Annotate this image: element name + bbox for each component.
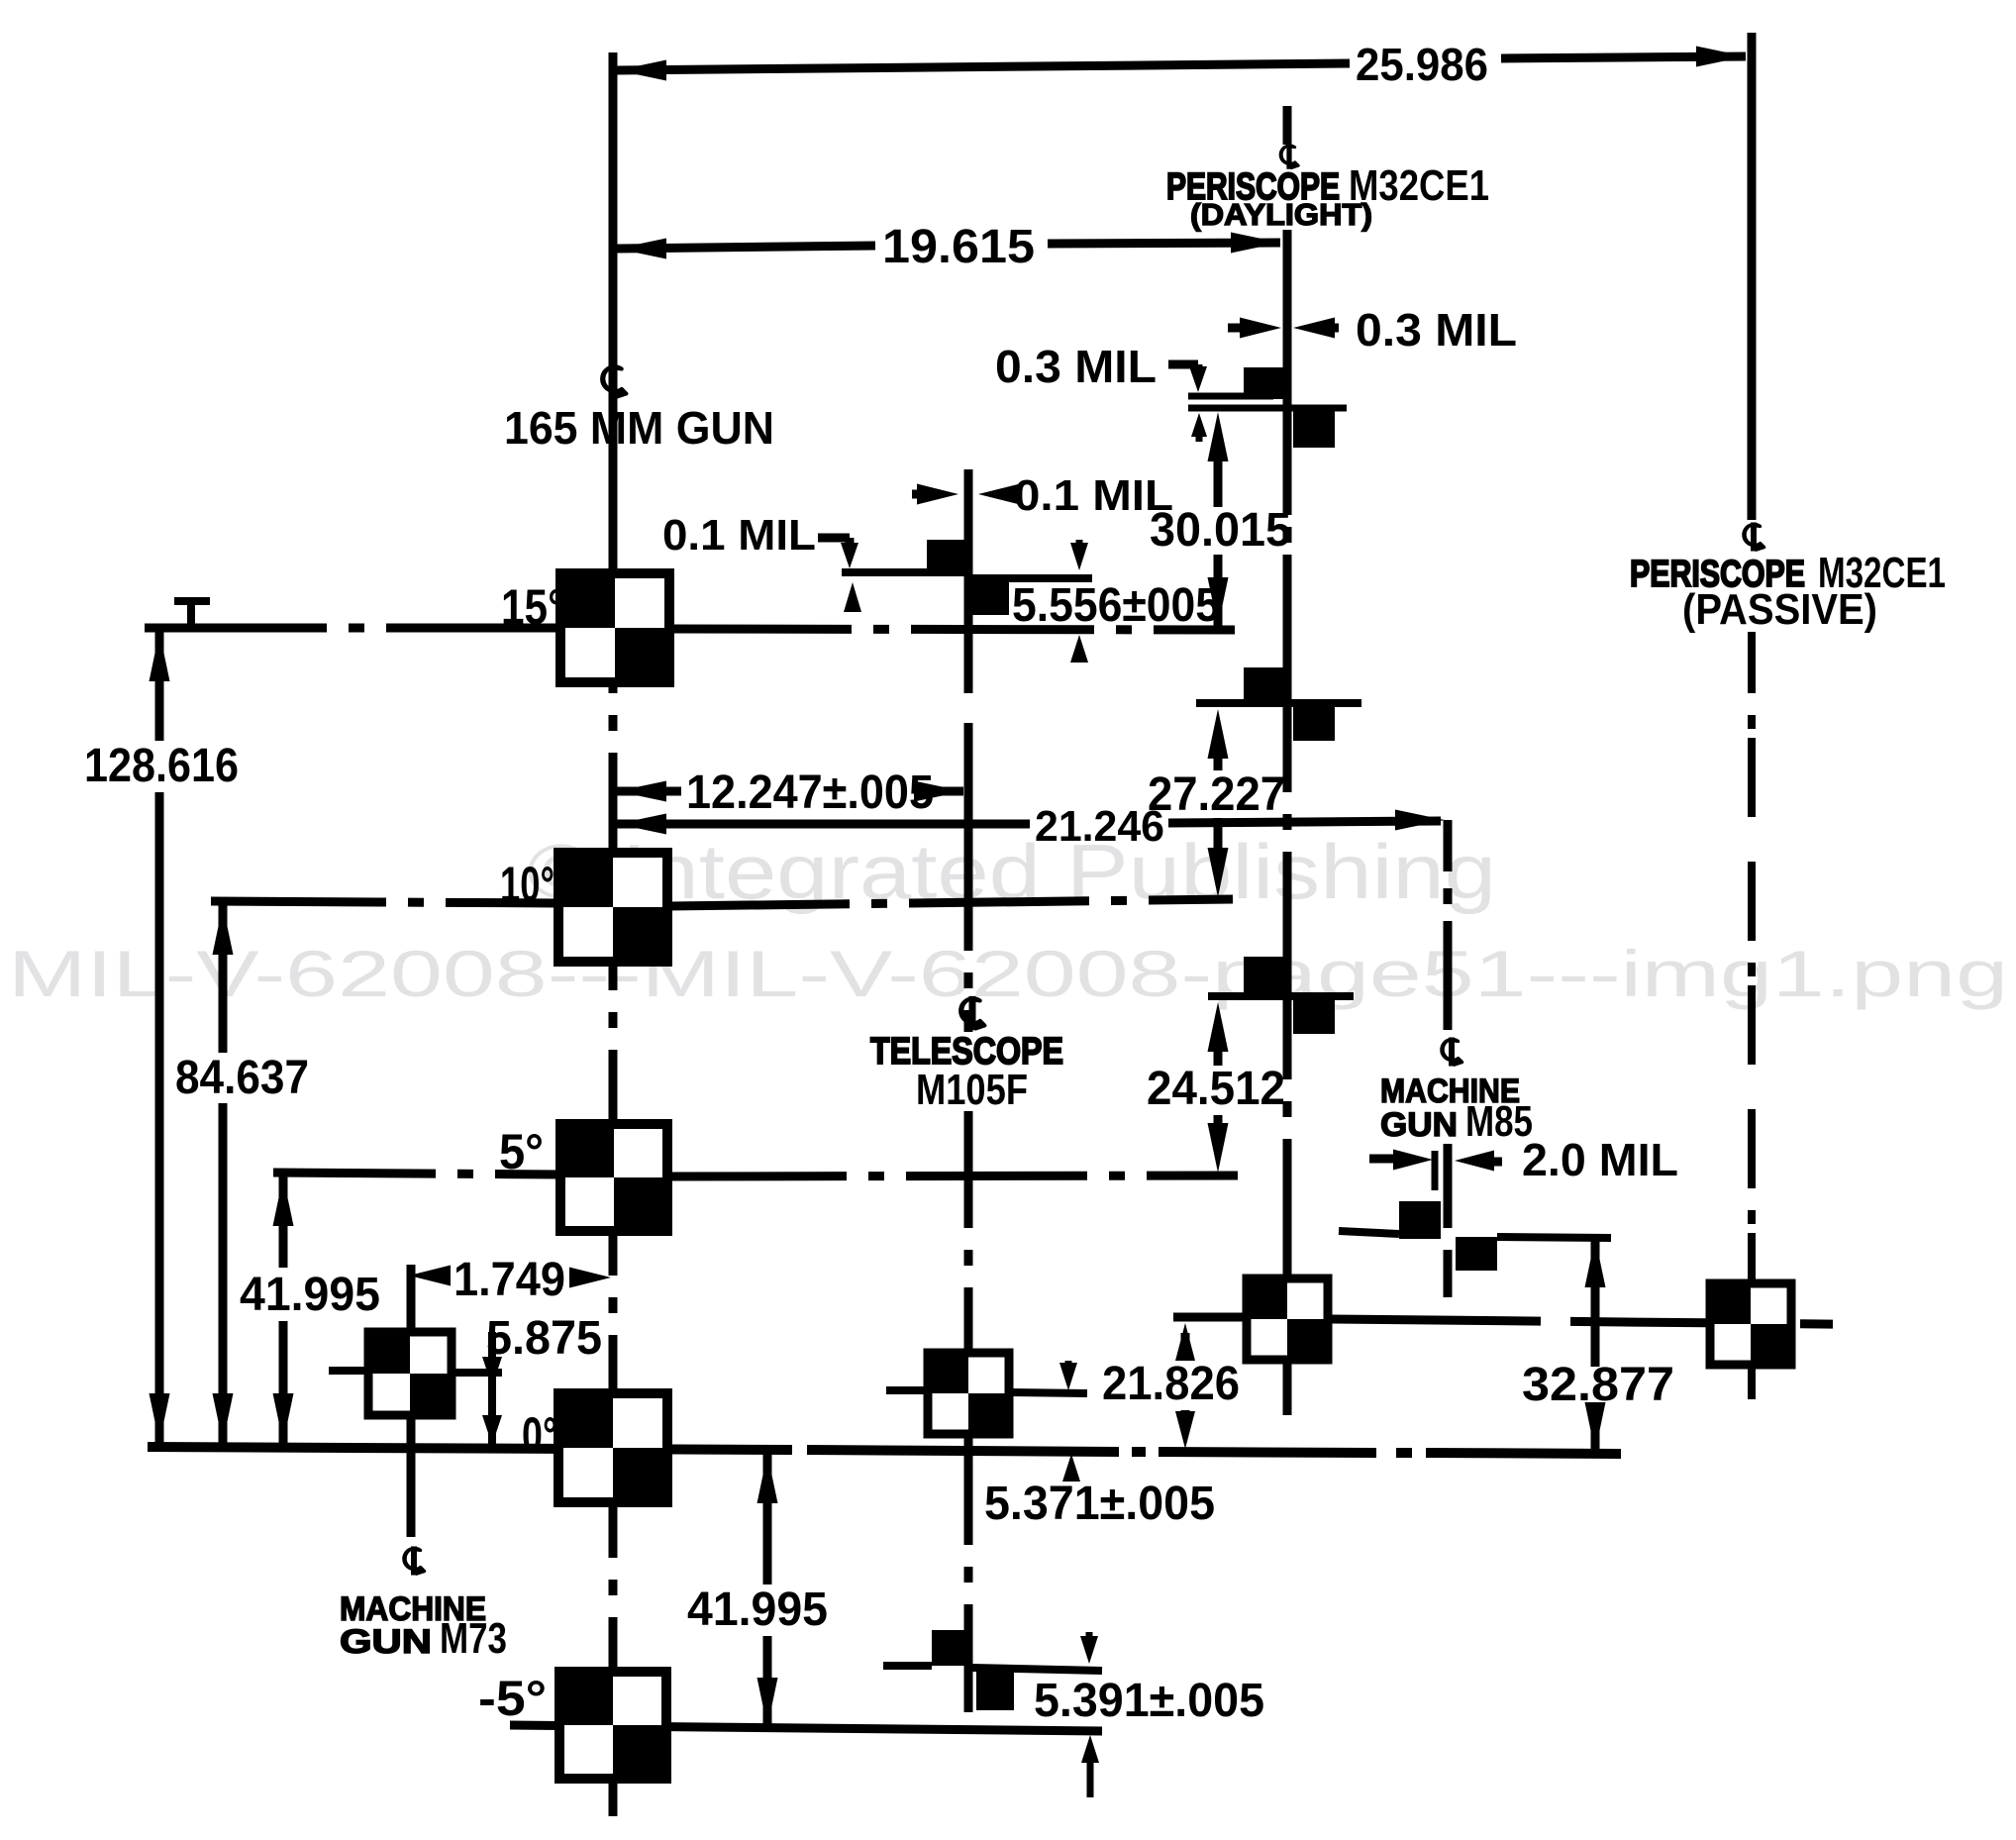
svg-text:5°: 5° bbox=[499, 1124, 544, 1179]
svg-text:5.875: 5.875 bbox=[486, 1312, 602, 1365]
svg-text:15°: 15° bbox=[501, 579, 564, 635]
svg-text:25.986: 25.986 bbox=[1356, 39, 1488, 90]
svg-text:(PASSIVE): (PASSIVE) bbox=[1682, 585, 1877, 634]
svg-text:5.371±.005: 5.371±.005 bbox=[984, 1478, 1215, 1530]
svg-text:10°: 10° bbox=[500, 857, 554, 912]
svg-text:0.3 MIL: 0.3 MIL bbox=[995, 341, 1157, 392]
svg-text:24.512: 24.512 bbox=[1147, 1063, 1285, 1115]
svg-text:2.0 MIL: 2.0 MIL bbox=[1522, 1134, 1678, 1185]
svg-text:32.877: 32.877 bbox=[1522, 1359, 1674, 1411]
svg-text:41.995: 41.995 bbox=[687, 1584, 828, 1636]
svg-text:128.616: 128.616 bbox=[84, 740, 239, 792]
svg-text:0.1 MIL: 0.1 MIL bbox=[662, 511, 816, 560]
svg-text:5.391±.005: 5.391±.005 bbox=[1034, 1675, 1264, 1727]
svg-text:GUN: GUN bbox=[1380, 1106, 1458, 1144]
svg-text:12.247±.005: 12.247±.005 bbox=[686, 767, 934, 819]
svg-text:0°: 0° bbox=[522, 1407, 557, 1463]
svg-text:M73: M73 bbox=[440, 1614, 507, 1663]
svg-text:GUN: GUN bbox=[340, 1623, 432, 1661]
svg-text:84.637: 84.637 bbox=[175, 1052, 309, 1104]
svg-text:0.3 MIL: 0.3 MIL bbox=[1356, 304, 1517, 356]
svg-text:30.015: 30.015 bbox=[1150, 504, 1291, 557]
svg-text:21.826: 21.826 bbox=[1102, 1358, 1240, 1410]
svg-text:41.995: 41.995 bbox=[240, 1269, 380, 1321]
svg-text:19.615: 19.615 bbox=[882, 221, 1035, 273]
svg-text:5.556±005: 5.556±005 bbox=[1012, 579, 1220, 632]
svg-text:-5°: -5° bbox=[478, 1671, 547, 1726]
svg-text:M105F: M105F bbox=[916, 1066, 1028, 1114]
svg-text:MIL-V-62008---MIL-V-62008-page: MIL-V-62008---MIL-V-62008-page51---img1.… bbox=[8, 937, 2008, 1010]
svg-text:(DAYLIGHT): (DAYLIGHT) bbox=[1190, 197, 1372, 232]
svg-text:21.246: 21.246 bbox=[1035, 802, 1164, 851]
svg-text:1.749: 1.749 bbox=[454, 1254, 565, 1306]
svg-text:27.227: 27.227 bbox=[1148, 768, 1285, 821]
svg-text:165 MM GUN: 165 MM GUN bbox=[504, 402, 774, 454]
